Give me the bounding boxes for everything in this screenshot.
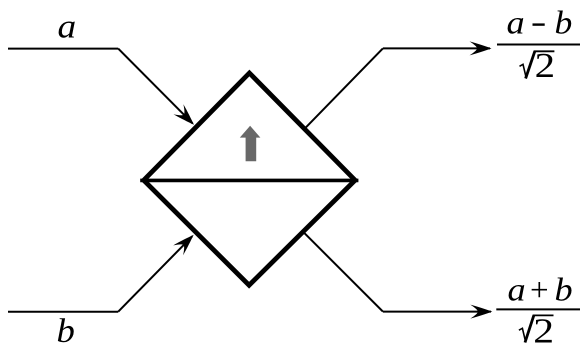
- wire input b diagonal: [118, 236, 192, 311]
- svg-text:b: b: [555, 271, 573, 308]
- arrowhead input b: [173, 230, 198, 255]
- arrowhead input a: [173, 104, 198, 129]
- wire input a horizontal: [8, 48, 118, 50]
- svg-text:b: b: [555, 5, 573, 42]
- svg-text:b: b: [57, 311, 75, 349]
- arrowhead output top: [470, 41, 492, 55]
- label (a-b)/sqrt2 minus: [533, 23, 545, 25]
- svg-text:2: 2: [533, 312, 554, 350]
- wire output top horizontal: [383, 47, 490, 49]
- beam splitter interface line: [140, 179, 358, 183]
- beam splitter BS (diamond): [144, 73, 355, 285]
- wire input b horizontal: [8, 311, 118, 313]
- wire output bottom diagonal: [304, 232, 383, 311]
- arrowhead output bottom: [470, 305, 492, 319]
- radical bottom: [519, 328, 526, 342]
- wire output bottom horizontal: [383, 311, 491, 313]
- wire input a diagonal: [118, 49, 192, 124]
- svg-text:a: a: [508, 271, 526, 308]
- fraction bar top: [497, 44, 580, 46]
- svg-text:a: a: [507, 4, 525, 41]
- svg-text:a: a: [58, 7, 77, 45]
- gray up arrow inside BS: [240, 126, 261, 161]
- radical top: [520, 64, 527, 78]
- svg-text:2: 2: [535, 46, 555, 85]
- fraction bar bottom: [496, 308, 580, 310]
- svg-text:+: +: [530, 273, 549, 309]
- wire output top diagonal: [305, 48, 383, 128]
